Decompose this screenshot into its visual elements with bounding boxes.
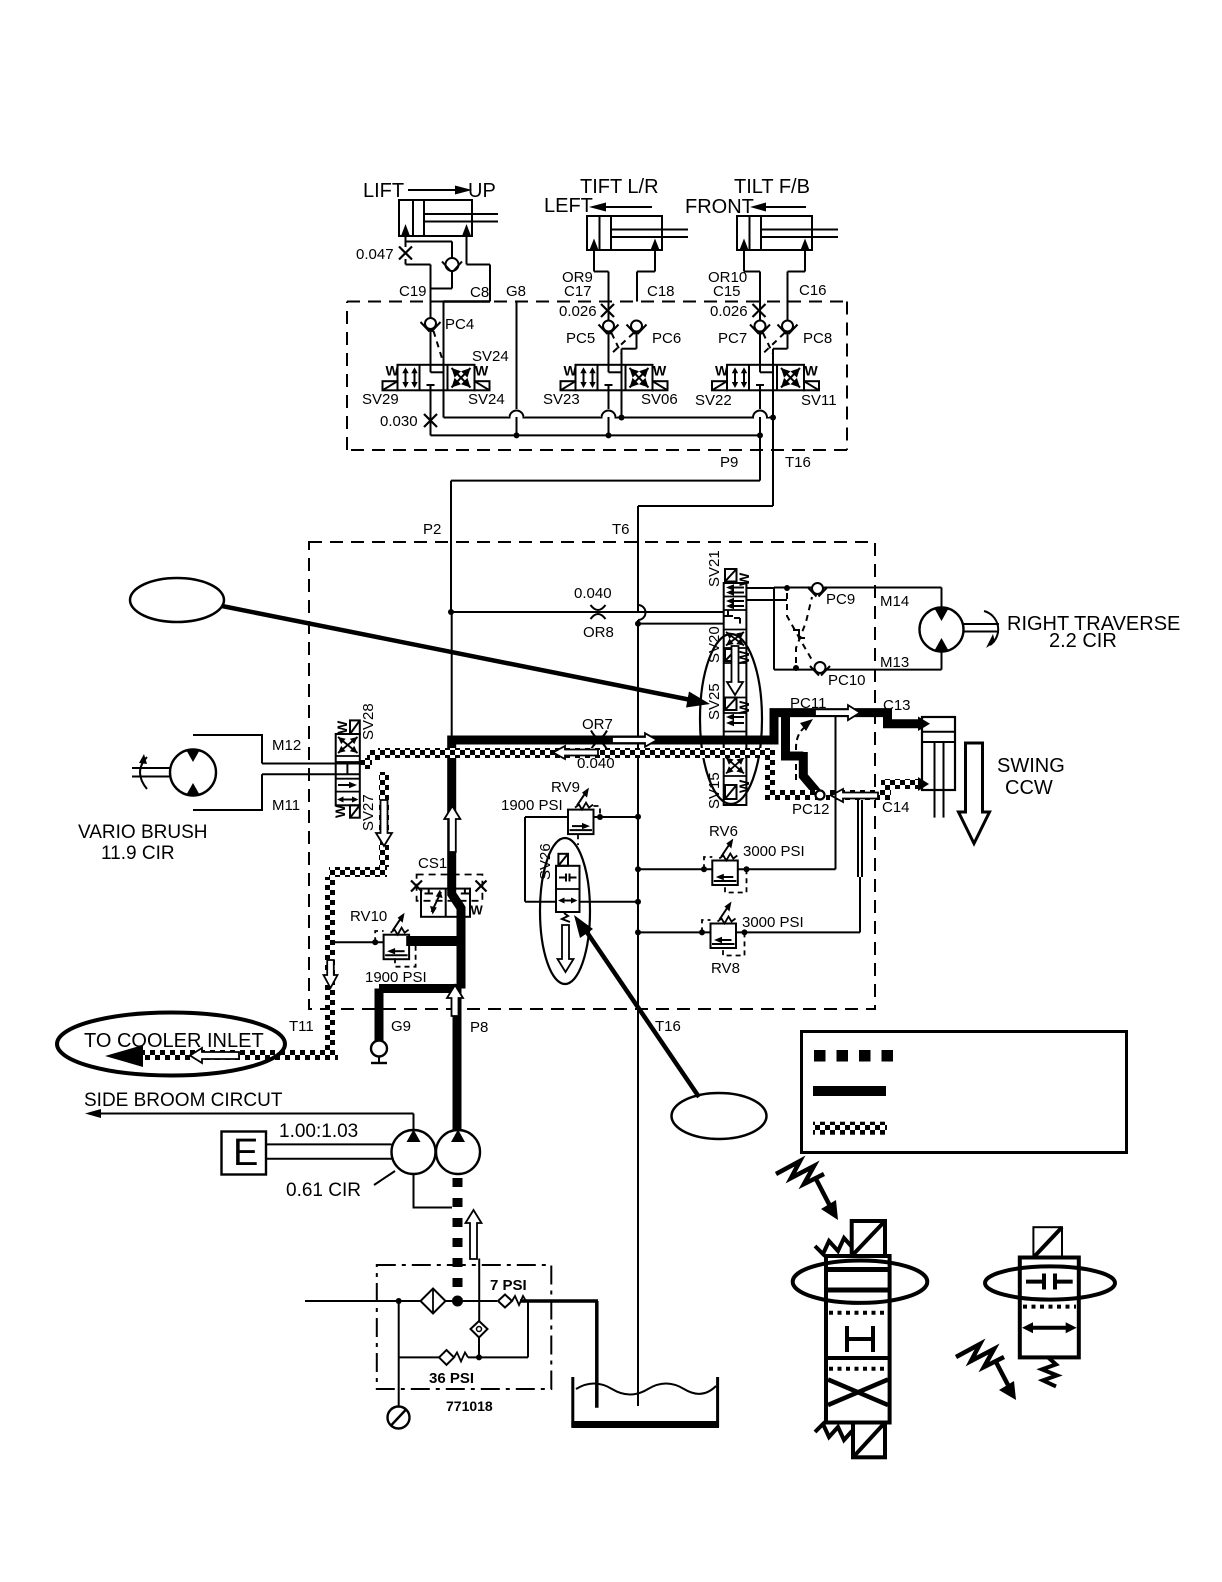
svg-text:TILT F/B: TILT F/B — [734, 176, 810, 198]
drain line (checkered) to T11 — [329, 867, 387, 877]
svg-text:CS1: CS1 — [418, 855, 447, 872]
svg-text:W: W — [736, 572, 752, 586]
valve SV23/SV06 (TIFT section) — [576, 365, 653, 391]
T rail (tank gallery with hops) — [444, 411, 774, 418]
arrowhead to cooler — [105, 1045, 143, 1067]
manifold box (main valve block) — [309, 542, 875, 1009]
svg-text:PC9: PC9 — [826, 591, 855, 608]
arrowhead into swing cylinder C13 — [918, 717, 930, 732]
svg-text:W: W — [471, 903, 484, 918]
relief valve RV10 1900 PSI — [334, 941, 384, 943]
svg-text:W: W — [386, 363, 400, 379]
pressure line P2 to OR7 corner (thick) — [451, 612, 453, 740]
wire pump drain loop — [414, 1175, 453, 1208]
cylinder TILT — [737, 216, 812, 250]
svg-text:SV25: SV25 — [706, 683, 723, 720]
flow arrow (white) through SV20 — [727, 646, 743, 695]
wire LIFT rod-end to C8 — [466, 236, 468, 265]
svg-text:M13: M13 — [880, 654, 909, 671]
flow arrow white up (above CS1) — [444, 806, 460, 852]
svg-text:SV21: SV21 — [706, 550, 723, 587]
svg-text:W: W — [653, 363, 667, 379]
svg-text:C17: C17 — [564, 283, 592, 300]
legend box — [802, 1032, 1127, 1153]
svg-text:3000 PSI: 3000 PSI — [743, 843, 805, 860]
pump side broom — [392, 1130, 436, 1174]
ellipse TO COOLER INLET — [57, 1013, 285, 1076]
orifice OR8 0.040 — [591, 605, 606, 610]
svg-text:C8: C8 — [470, 284, 489, 301]
check valve PC8 — [778, 325, 787, 335]
svg-text:SV27: SV27 — [360, 794, 377, 831]
wire TIFT cap-end to C17 — [593, 250, 595, 272]
svg-text:P8: P8 — [470, 1019, 488, 1036]
check valve PC4 — [421, 322, 430, 332]
ellipse callout example valve left — [793, 1261, 928, 1303]
svg-text:W: W — [564, 363, 578, 379]
drain line (checkered) SV25 area to PC12 — [765, 748, 775, 795]
wire RV9/SV26 loop — [524, 817, 526, 902]
svg-text:1900 PSI: 1900 PSI — [365, 969, 427, 986]
wire TIFT rod-end to C18 — [654, 250, 656, 272]
svg-text:3000 PSI: 3000 PSI — [742, 914, 804, 931]
electric motor box E — [222, 1132, 267, 1175]
svg-text:CCW: CCW — [1005, 777, 1053, 799]
svg-text:C15: C15 — [713, 283, 741, 300]
legend thick line sample — [813, 1086, 886, 1096]
wire T6 to SV21 lower port — [638, 623, 724, 625]
drain line (checkered) PC12 to C14 port — [826, 790, 886, 800]
wire SV26 to T6 — [580, 901, 639, 903]
legend dotted line sample — [814, 1050, 826, 1062]
pilot lines PC9/PC10 (dashed staircase) — [787, 593, 812, 660]
valve stack SV28/SV27 — [336, 734, 360, 805]
svg-text:W: W — [805, 363, 819, 379]
wire PC8 to B-port elbow — [787, 332, 789, 349]
lightning bolt 2 — [956, 1344, 1004, 1367]
pressure line G9 tee and P8 drop (thick) — [379, 989, 461, 1042]
svg-text:1.00:1.03: 1.00:1.03 — [279, 1121, 358, 1142]
svg-text:771018: 771018 — [446, 1398, 493, 1414]
svg-text:TO COOLER INLET: TO COOLER INLET — [84, 1030, 264, 1052]
svg-text:SIDE BROOM CIRCUT: SIDE BROOM CIRCUT — [84, 1090, 283, 1111]
solenoid SV15 bottom — [725, 785, 737, 799]
check valve PC9 — [808, 587, 817, 597]
solenoid SV25 — [725, 698, 737, 711]
manifold box (top valve block) — [347, 302, 847, 451]
svg-text:FRONT: FRONT — [685, 196, 754, 218]
hydraulic motor RIGHT TRAVERSE — [920, 608, 964, 652]
svg-text:RV9: RV9 — [551, 779, 580, 796]
legend checkered line sample — [813, 1122, 887, 1135]
ellipse callout around SV20/SV25/SV15 — [700, 634, 762, 804]
check valve PC10 — [810, 666, 819, 676]
relief valve RV6 3000 PSI — [638, 868, 712, 870]
flow arrow white left cooler — [190, 1048, 239, 1063]
svg-text:T6: T6 — [612, 521, 630, 538]
valve SV26 — [558, 854, 568, 866]
svg-text:T11: T11 — [289, 1018, 314, 1035]
hydraulic motor VARIO BRUSH — [193, 735, 262, 810]
orifice OR7 0.040 — [591, 731, 607, 739]
filter unit box 771018 (dash-dot) — [377, 1265, 552, 1389]
valve SV29/SV24 (LIFT section) — [398, 365, 475, 391]
svg-text:OR8: OR8 — [583, 624, 614, 641]
svg-text:G8: G8 — [506, 283, 526, 300]
pointer arrow to SV26 — [582, 925, 699, 1097]
wire C8 to valve SV24 B-port (along boundary) — [444, 300, 491, 302]
svg-text:T16: T16 — [655, 1018, 681, 1035]
svg-text:C18: C18 — [647, 283, 675, 300]
ellipse callout (upper left) — [130, 578, 224, 622]
wire T6 main drain down to tank (hop over OR8 line) — [637, 506, 639, 605]
wire valve3 B to T rail — [772, 390, 774, 417]
svg-text:SV29: SV29 — [362, 391, 399, 408]
svg-text:PC10: PC10 — [828, 672, 866, 689]
test point G9 — [371, 1041, 387, 1057]
wire TILT cap-end to C15 — [743, 250, 745, 272]
svg-text:PC6: PC6 — [652, 330, 681, 347]
flow arrow white up (P8) — [447, 985, 463, 1016]
wire valve1 P-port with orifice 0.030 — [430, 390, 432, 435]
motor loop frame — [774, 588, 942, 670]
flow arrow white up suction — [466, 1210, 482, 1259]
svg-text:7 PSI: 7 PSI — [490, 1277, 527, 1294]
valve stack SV21/SV20/SV25/SV15 — [724, 583, 747, 805]
gauge — [388, 1407, 410, 1429]
wire M12 — [262, 763, 360, 765]
check valve PC12 ball — [816, 791, 825, 800]
svg-text:P9: P9 — [720, 454, 738, 471]
big arrow SWING CCW (white down) — [959, 743, 990, 844]
check valve PC5 — [599, 325, 608, 335]
wire valve2 P to P rail (hop over T rail) — [608, 390, 610, 435]
check valve 36 PSI — [399, 1356, 439, 1358]
pressure line to PC12 (thick steps) — [781, 716, 819, 794]
svg-text:C16: C16 — [799, 282, 827, 299]
svg-text:0.61 CIR: 0.61 CIR — [286, 1180, 361, 1201]
svg-text:P2: P2 — [423, 521, 441, 538]
pilot lines PC5 PC6 (crossed dashed) — [612, 333, 622, 354]
relief valve RV8 3000 PSI — [638, 931, 711, 933]
svg-text:RV10: RV10 — [350, 908, 387, 925]
wire TILT rod-end to C16 — [804, 250, 806, 272]
wire valve1 B-port to T rail — [443, 390, 445, 417]
flow arrow white right on OR7 line — [612, 733, 657, 747]
flow arrow white down SV26 — [558, 925, 574, 972]
wire LIFT cap-end to C19 — [405, 236, 407, 247]
svg-text:SV24: SV24 — [468, 391, 505, 408]
flow arrow white down to T11 — [324, 960, 338, 988]
compensator valve CS1 — [417, 875, 483, 901]
check valve 7 PSI — [498, 1295, 512, 1308]
svg-text:W: W — [736, 700, 752, 714]
ellipse callout example valve right — [985, 1266, 1115, 1299]
svg-text:0.030: 0.030 — [380, 413, 418, 430]
cylinder LIFT — [399, 200, 472, 236]
solenoid box SV21 top — [725, 569, 737, 582]
svg-text:SV06: SV06 — [641, 391, 678, 408]
flow arrow white left C14 — [831, 789, 878, 802]
svg-text:W: W — [332, 804, 348, 818]
svg-text:PC7: PC7 — [718, 330, 747, 347]
svg-text:SV23: SV23 — [543, 391, 580, 408]
pilot line PC4 (dashed) — [434, 331, 443, 360]
svg-text:PC12: PC12 — [792, 801, 830, 818]
svg-text:G9: G9 — [391, 1018, 411, 1035]
wire T16 exit to T6 — [772, 418, 774, 507]
valve SV22/SV11 (TILT section) — [727, 365, 804, 391]
example valve right (2-position) — [1020, 1227, 1079, 1357]
wire PC4 to valve A-port — [430, 330, 432, 365]
svg-text:M11: M11 — [272, 797, 300, 814]
wire filter internals — [398, 1301, 400, 1406]
flow arrow white left on drain — [553, 746, 598, 759]
P rail (pressure gallery) — [431, 434, 761, 436]
check valve PC6 — [627, 325, 636, 335]
wire C13 to RV6 — [835, 717, 837, 869]
bypass check valve — [478, 1259, 480, 1322]
junction suction — [452, 1296, 463, 1307]
lightning bolt 1 — [776, 1161, 824, 1184]
svg-text:SV28: SV28 — [360, 703, 377, 740]
suction line (dotted) — [453, 1178, 463, 1299]
filter symbol — [421, 1289, 446, 1314]
solenoid SV28 top — [350, 720, 360, 734]
svg-text:SV24: SV24 — [472, 348, 509, 365]
svg-text:E: E — [233, 1132, 258, 1174]
wire SV21 to motor loop M14 — [746, 587, 774, 589]
svg-text:PC8: PC8 — [803, 330, 832, 347]
svg-text:LEFT: LEFT — [544, 195, 593, 217]
wire P9 exit to P2 — [759, 435, 761, 480]
drain line (checkered) SV27 down — [379, 772, 389, 867]
svg-text:SV22: SV22 — [695, 392, 732, 409]
pump main P8 — [436, 1130, 480, 1174]
svg-text:T16: T16 — [785, 454, 811, 471]
wire PC6 to B-port elbow — [636, 332, 638, 349]
svg-text:36 PSI: 36 PSI — [429, 1370, 474, 1387]
svg-text:M14: M14 — [880, 593, 909, 610]
svg-text:11.9 CIR: 11.9 CIR — [101, 843, 175, 864]
svg-text:W: W — [334, 720, 350, 734]
cylinder TIFT — [587, 216, 662, 250]
svg-text:0.040: 0.040 — [574, 585, 612, 602]
wire valve3 P to P rail — [759, 390, 761, 435]
svg-text:W: W — [715, 363, 729, 379]
svg-text:PC5: PC5 — [566, 330, 595, 347]
pointer arrow to SV25 — [222, 606, 696, 701]
svg-text:SWING: SWING — [997, 755, 1065, 777]
svg-text:PC4: PC4 — [445, 316, 474, 333]
wire M11 — [262, 773, 360, 775]
wire side broom — [98, 1113, 414, 1115]
check valve PC7 — [750, 325, 759, 335]
wire OR8 line P2 to SV21 — [451, 611, 724, 613]
svg-text:LIFT: LIFT — [363, 180, 404, 202]
svg-text:RV6: RV6 — [709, 823, 738, 840]
relief valve RV9 1900 PSI — [568, 810, 594, 835]
wire G8 port down to P rail — [516, 302, 518, 436]
tank reservoir — [571, 1377, 574, 1427]
wire return to tank (thick) — [520, 1299, 598, 1303]
svg-text:0.047: 0.047 — [356, 246, 394, 263]
drain line (checkered) from SV28 to SV25 — [378, 748, 770, 758]
pilot lines PC7 PC8 (crossed dashed) — [763, 333, 773, 354]
solenoid SV27 bottom — [350, 805, 360, 817]
svg-text:M12: M12 — [272, 737, 301, 754]
shaft E to pumps — [266, 1143, 392, 1145]
svg-text:C19: C19 — [399, 283, 427, 300]
svg-text:C14: C14 — [882, 799, 910, 816]
drain checkered to cooler — [127, 1050, 338, 1060]
suction header line — [305, 1300, 421, 1302]
svg-text:UP: UP — [468, 180, 496, 202]
pilot line PC11 (dashed) — [796, 727, 805, 780]
svg-text:OR7: OR7 — [582, 716, 613, 733]
check valve across LIFT ports — [406, 241, 453, 243]
svg-text:0.026: 0.026 — [559, 303, 597, 320]
svg-text:2.2 CIR: 2.2 CIR — [1049, 630, 1117, 652]
ellipse callout around SV26 — [540, 838, 590, 984]
wire valve2 B to T rail — [621, 390, 623, 417]
ellipse callout (lower middle) — [672, 1093, 767, 1139]
svg-text:1900 PSI: 1900 PSI — [501, 797, 563, 814]
flow arrow white right at PC11 — [815, 705, 860, 720]
example valve left (3-position) — [852, 1221, 885, 1256]
flow arrow white down SV27 drain — [376, 800, 392, 846]
svg-text:C13: C13 — [883, 697, 911, 714]
svg-text:SV11: SV11 — [801, 392, 837, 409]
svg-text:0.026: 0.026 — [710, 303, 748, 320]
svg-text:VARIO BRUSH: VARIO BRUSH — [78, 822, 208, 843]
svg-text:RV8: RV8 — [711, 960, 740, 977]
cylinder SWING — [922, 717, 955, 790]
wire C14 to RV8 — [857, 800, 859, 877]
